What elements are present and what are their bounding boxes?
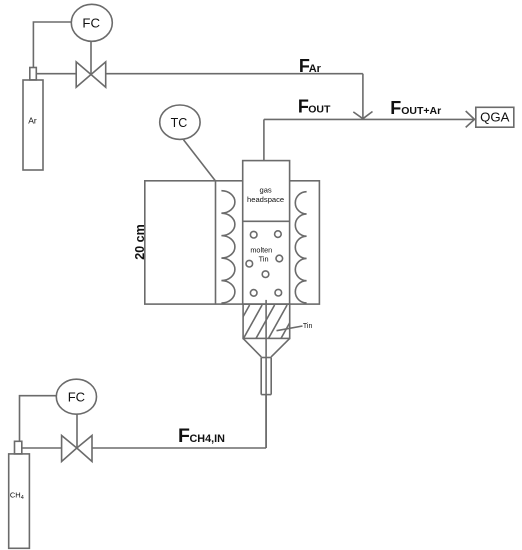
svg-text:F: F	[390, 98, 401, 118]
svg-text:OUT: OUT	[308, 103, 331, 115]
svg-text:OUT+Ar: OUT+Ar	[401, 105, 441, 117]
svg-text:Ar: Ar	[28, 115, 37, 125]
svg-text:FC: FC	[68, 389, 85, 404]
svg-text:20 cm: 20 cm	[133, 224, 147, 259]
svg-text:gas: gas	[259, 186, 271, 195]
svg-text:TC: TC	[171, 116, 188, 130]
svg-text:Ar: Ar	[309, 63, 322, 75]
svg-text:QGA: QGA	[480, 109, 510, 124]
svg-text:molten: molten	[250, 245, 272, 254]
svg-text:headspace: headspace	[247, 195, 284, 204]
svg-text:FC: FC	[82, 16, 100, 31]
svg-text:Tin: Tin	[303, 323, 313, 330]
svg-text:Tin: Tin	[259, 255, 269, 264]
svg-text:F: F	[178, 425, 190, 447]
svg-text:CH4,IN: CH4,IN	[190, 433, 226, 445]
